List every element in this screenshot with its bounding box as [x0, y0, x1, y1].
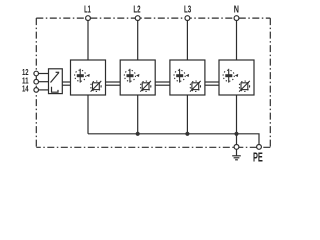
wire PE bus	[88, 134, 259, 145]
wire lead 12	[39, 73, 53, 75]
SPD module F4 (N)	[219, 60, 254, 95]
wire earth drop	[236, 134, 238, 145]
enclosure dash-dot border right	[269, 18, 271, 147]
wire L1 conductor	[87, 21, 89, 61]
wire L3 conductor	[186, 21, 188, 61]
bus double line SPD1 to SPD2	[106, 82, 121, 85]
wire N conductor	[236, 21, 238, 61]
svg-text:N: N	[234, 4, 239, 15]
wire L2 conductor	[137, 21, 139, 61]
terminal 14	[34, 88, 39, 93]
contact 12 tick	[56, 71, 60, 73]
wire SPD4 bottom lead	[236, 95, 238, 134]
svg-text:L1: L1	[84, 4, 91, 15]
enclosure dash-dot border top	[36, 17, 270, 19]
wire lead 14	[39, 89, 52, 91]
svg-text:PE: PE	[253, 150, 263, 165]
changeover contact blade	[51, 73, 59, 83]
SPD module F2 (L2)	[120, 60, 155, 95]
node junction L2 bus	[136, 132, 140, 136]
wire SPD1 bottom lead	[87, 95, 89, 134]
wire lead 11	[39, 81, 51, 83]
svg-text:L3: L3	[184, 4, 191, 15]
svg-text:L2: L2	[133, 4, 140, 15]
terminal 12	[34, 71, 39, 76]
wire SPD3 bottom lead	[186, 95, 188, 134]
terminal N	[234, 16, 239, 21]
contact 14 bracket	[52, 87, 59, 92]
terminal 11	[34, 79, 39, 84]
terminal PE	[257, 145, 262, 150]
enclosure dash-dot border bottom	[36, 146, 270, 148]
terminal earth exit	[234, 145, 239, 150]
SPD module F1 (L1)	[71, 60, 106, 95]
terminal L1	[86, 16, 91, 21]
node junction L3 bus	[185, 132, 189, 136]
terminal L2	[135, 16, 140, 21]
enclosure dash-dot border left	[35, 18, 37, 147]
bus double line switch to SPD1	[62, 82, 70, 85]
node junction N bus	[234, 132, 238, 136]
changeover contact K1 box	[49, 69, 63, 94]
bus double line SPD3 to SPD4	[205, 82, 220, 85]
SPD module F3 (L3)	[170, 60, 205, 95]
terminal L3	[185, 16, 190, 21]
ground symbol	[232, 149, 241, 160]
svg-text:14: 14	[22, 84, 29, 94]
wire SPD2 bottom lead	[137, 95, 139, 134]
bus double line SPD2 to SPD3	[155, 82, 170, 85]
